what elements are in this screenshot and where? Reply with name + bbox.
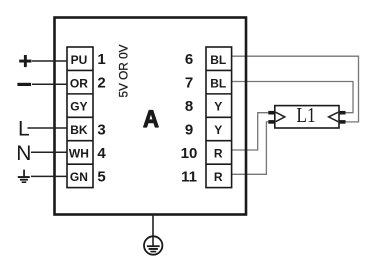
svg-text:11: 11	[181, 168, 197, 185]
svg-text:8: 8	[185, 98, 193, 115]
svg-text:9: 9	[185, 122, 193, 139]
svg-text:Y: Y	[214, 100, 222, 114]
svg-text:WH: WH	[69, 147, 89, 161]
wire earth to terminal 5	[31, 175, 67, 177]
svg-text:R: R	[214, 147, 223, 161]
wire L to terminal 3	[28, 127, 68, 129]
svg-text:5V OR 0V: 5V OR 0V	[117, 44, 131, 97]
L1 pin right-top	[339, 111, 346, 115]
svg-text:L1: L1	[296, 103, 315, 127]
wire terminal 10 to L1 left top pin	[232, 113, 269, 150]
svg-text:BL: BL	[210, 76, 226, 90]
svg-text:A: A	[143, 105, 159, 132]
enclosure A (control unit outline)	[55, 18, 247, 215]
svg-text:7: 7	[185, 75, 193, 92]
wire terminal 7 to L1 right top pin	[232, 82, 353, 113]
L1 pin right-bottom	[339, 120, 346, 124]
svg-text:2: 2	[97, 75, 105, 92]
wire N to terminal 4	[31, 151, 67, 153]
svg-text:L: L	[18, 117, 30, 140]
node - (DC supply minus)	[17, 83, 31, 86]
L1 pin left-bottom	[268, 120, 275, 124]
L1 right electrode chevron	[329, 112, 339, 122]
svg-text:3: 3	[97, 122, 105, 139]
svg-text:R: R	[214, 170, 223, 184]
svg-text:BL: BL	[210, 53, 226, 67]
terminal strip TB-left outline	[67, 47, 93, 188]
svg-text:10: 10	[181, 145, 198, 162]
svg-text:Y: Y	[214, 123, 222, 137]
svg-text:PU: PU	[71, 53, 88, 67]
svg-text:GY: GY	[70, 100, 87, 114]
svg-text:1: 1	[97, 51, 105, 68]
wire terminal 6 to L1 right bottom pin	[232, 56, 359, 122]
lamp L1 (fluorescent tube)	[268, 103, 345, 128]
wire - to terminal 2	[32, 83, 67, 85]
L1 left electrode chevron	[276, 112, 285, 122]
svg-text:GN: GN	[70, 170, 88, 184]
svg-text:6: 6	[185, 51, 193, 68]
svg-text:OR: OR	[70, 76, 88, 90]
svg-text:5: 5	[97, 168, 105, 185]
wire + to terminal 1	[32, 60, 67, 62]
node + (DC supply plus)	[19, 55, 31, 67]
wire enclosure A to protective earth	[152, 214, 154, 247]
svg-text:4: 4	[97, 145, 106, 162]
terminal strip TB-right outline	[206, 47, 232, 188]
L1 pin left-top	[268, 111, 275, 115]
svg-text:BK: BK	[70, 123, 88, 137]
L1 body	[275, 106, 339, 128]
svg-text:N: N	[16, 142, 31, 165]
ground (earth symbol at input)	[18, 170, 30, 183]
wire terminal 11 to L1 left bottom pin	[232, 122, 269, 174]
ground (protective earth in circle)	[144, 236, 162, 254]
